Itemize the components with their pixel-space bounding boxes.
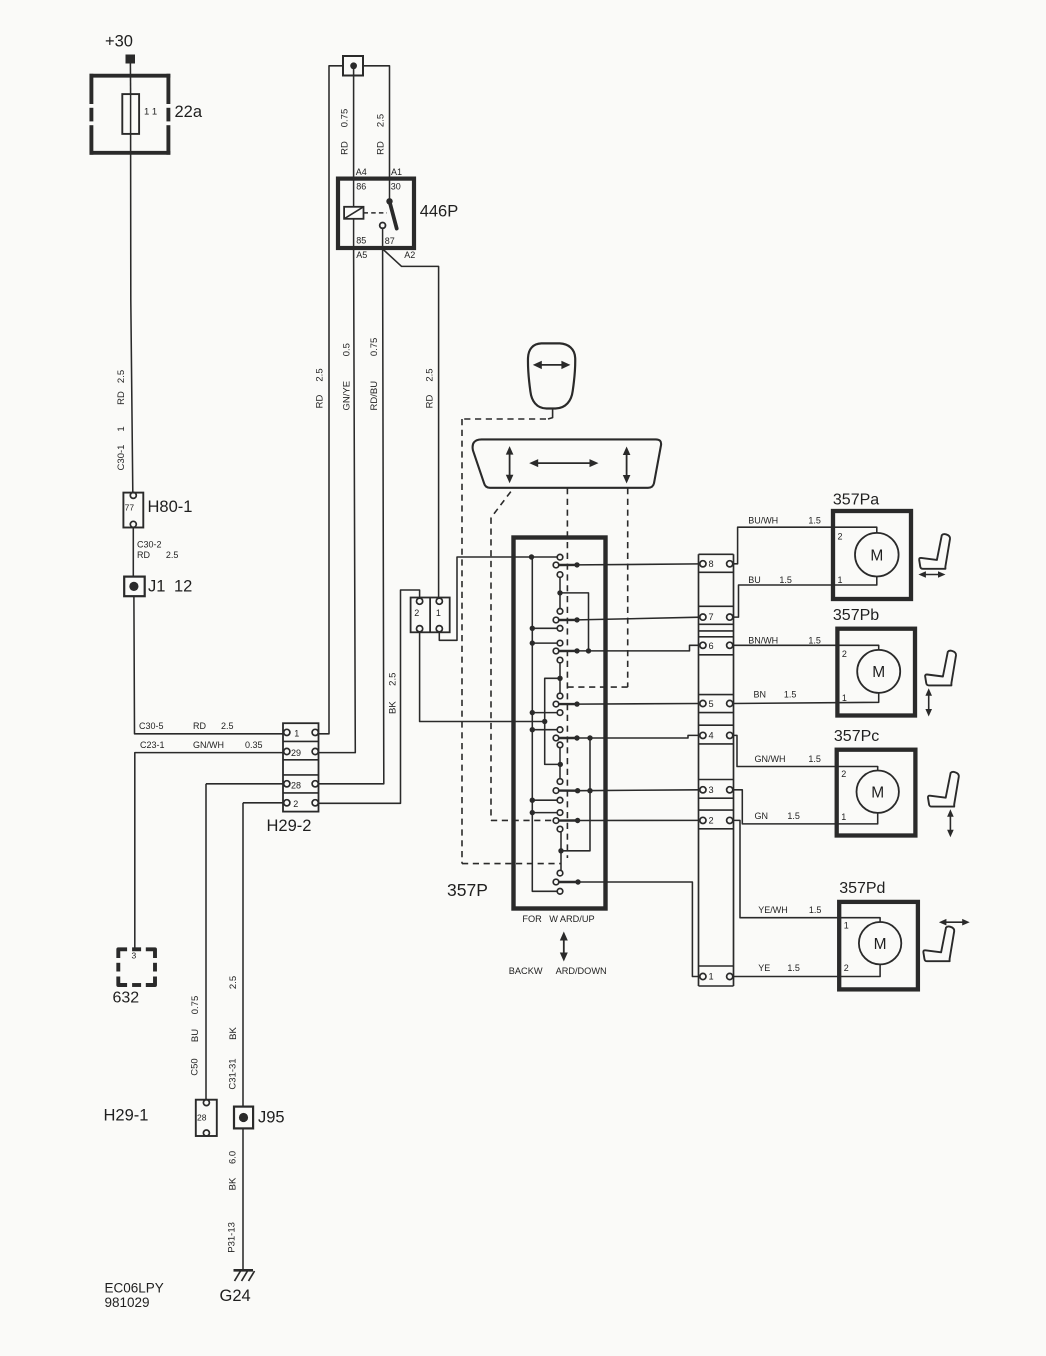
svg-text:BN: BN bbox=[754, 690, 767, 700]
wire 357P internal common bus bbox=[529, 554, 557, 891]
dashed link seat control right to 357P bbox=[567, 488, 627, 687]
wire BU 0.75 C50 H29-2 pin 28 to H29-1 bbox=[190, 784, 284, 1100]
svg-text:RD: RD bbox=[340, 141, 351, 155]
svg-text:C30-2: C30-2 bbox=[137, 540, 162, 550]
svg-text:RD: RD bbox=[116, 391, 127, 405]
svg-text:1: 1 bbox=[436, 608, 441, 618]
wire 357P switch A wiper to pin 8 bbox=[559, 562, 700, 567]
svg-text:357Pa: 357Pa bbox=[833, 492, 879, 509]
svg-text:RD: RD bbox=[424, 395, 435, 409]
svg-text:1.5: 1.5 bbox=[808, 754, 821, 764]
wire GN/YE 0.5 relay pin 85/A5 to H29-2 pin 29 bbox=[318, 248, 355, 753]
svg-text:6.0: 6.0 bbox=[228, 1151, 239, 1164]
wire 357P switch D wiper to pin 5 bbox=[559, 701, 700, 706]
svg-text:86: 86 bbox=[356, 182, 366, 192]
wire RD 2.5 relay pin 87/A2 to inline connector pin 1 bbox=[383, 250, 438, 598]
svg-text:ARD/DOWN: ARD/DOWN bbox=[556, 966, 607, 976]
dashed link seat control middle to 357P bbox=[566, 488, 568, 858]
svg-text:446P: 446P bbox=[420, 203, 459, 221]
svg-text:G24: G24 bbox=[220, 1287, 251, 1305]
wire RD 0.75 junction to relay pin 86/A4 bbox=[340, 69, 367, 179]
svg-text:H29-1: H29-1 bbox=[104, 1107, 149, 1125]
seat icon for 357Pb with vertical arrow bbox=[925, 651, 956, 717]
wire RD 2.5 C30-5 J1 to H29-2 pin 1 bbox=[134, 596, 284, 734]
switch 357P contact group D bbox=[553, 693, 563, 715]
svg-text:YE: YE bbox=[758, 963, 770, 973]
switch 357P contact group G bbox=[553, 810, 563, 832]
wire YE 1.5 pin 1 to motor 357Pd bbox=[733, 963, 880, 976]
svg-text:357P: 357P bbox=[447, 880, 488, 900]
seat icon for 357Pd with horizontal arrow bbox=[923, 919, 969, 961]
svg-text:1.5: 1.5 bbox=[808, 636, 821, 646]
svg-text:22a: 22a bbox=[175, 103, 203, 121]
wire 357P switch H wiper to pin 1 bbox=[559, 879, 700, 976]
svg-text:BACKW: BACKW bbox=[509, 966, 543, 976]
motor 357Pa seat forward/backward bbox=[833, 492, 911, 600]
svg-text:RD: RD bbox=[137, 550, 150, 560]
svg-text:1: 1 bbox=[838, 575, 843, 585]
svg-text:1.5: 1.5 bbox=[808, 516, 821, 526]
svg-text:2.5: 2.5 bbox=[315, 368, 326, 381]
svg-text:0.75: 0.75 bbox=[369, 338, 380, 357]
svg-text:0.75: 0.75 bbox=[340, 109, 351, 128]
footer document id bbox=[105, 1281, 164, 1311]
ground G24 bbox=[220, 1270, 255, 1305]
svg-text:RD/BU: RD/BU bbox=[369, 381, 380, 411]
svg-text:BN/WH: BN/WH bbox=[748, 636, 778, 646]
svg-text:1.5: 1.5 bbox=[784, 690, 797, 700]
connector H80-1 pin 77 bbox=[123, 492, 192, 527]
connector 632 pin 3 bbox=[113, 949, 156, 1006]
connector H29-2 bbox=[267, 723, 319, 835]
seat icon for 357Pa with horizontal arrow bbox=[918, 534, 950, 578]
seat icon for 357Pc with vertical arrow bbox=[928, 772, 959, 837]
svg-text:28: 28 bbox=[291, 781, 301, 791]
svg-text:0.75: 0.75 bbox=[190, 996, 201, 1015]
svg-text:28: 28 bbox=[197, 1113, 207, 1123]
wire 357P switch E lower link bbox=[559, 748, 561, 779]
svg-text:357Pd: 357Pd bbox=[839, 880, 885, 897]
svg-text:C30-1: C30-1 bbox=[116, 445, 127, 471]
switch 357P contact group C bbox=[553, 640, 563, 663]
switch 357P contact group A bbox=[553, 554, 563, 577]
wire RD/BU 0.75 relay pin 87/A5 to H29-2 pin 28 bbox=[318, 248, 384, 784]
junction J1 pin 12 bbox=[124, 577, 192, 597]
wire GN/WH 0.35 C23-1 632 to H29-2 pin 29 bbox=[135, 740, 284, 951]
junction connector above relay 446P bbox=[343, 56, 363, 76]
svg-text:0.35: 0.35 bbox=[245, 740, 263, 750]
node +30 battery feed terminal bbox=[105, 33, 135, 64]
svg-text:BU: BU bbox=[190, 1029, 201, 1042]
svg-text:YE/WH: YE/WH bbox=[758, 905, 788, 915]
wire 357P switch E wiper to pin 4 bbox=[559, 735, 700, 740]
svg-text:3: 3 bbox=[709, 785, 714, 795]
svg-text:1.5: 1.5 bbox=[809, 905, 822, 915]
wire RD 2.5 C30-1 fuse to H80-1 bbox=[116, 134, 133, 493]
wire 357P switch A lower link bbox=[557, 577, 588, 651]
svg-text:2.5: 2.5 bbox=[424, 368, 435, 381]
switch 357P contact group F bbox=[553, 779, 563, 803]
wire RD 2.5 C30-2 H80-1 to J1 bbox=[133, 527, 178, 576]
svg-text:GN: GN bbox=[755, 811, 769, 821]
motor 357Pb seat front height bbox=[833, 607, 915, 716]
svg-text:357Pb: 357Pb bbox=[833, 607, 879, 624]
svg-text:M: M bbox=[870, 548, 883, 565]
svg-text:A2: A2 bbox=[404, 250, 415, 260]
svg-text:W ARD/UP: W ARD/UP bbox=[549, 914, 594, 924]
wire YE/WH 1.5 pin 2 to motor 357Pd bbox=[733, 820, 880, 922]
svg-text:1: 1 bbox=[116, 426, 127, 431]
svg-text:12: 12 bbox=[174, 578, 192, 596]
svg-text:BK: BK bbox=[387, 701, 398, 714]
svg-text:8: 8 bbox=[709, 559, 714, 569]
wire 357P switch C lower link bbox=[542, 663, 563, 767]
switch 357P contact group B bbox=[553, 609, 563, 632]
motor 357Pd seat slide bbox=[839, 880, 918, 989]
svg-text:981029: 981029 bbox=[105, 1295, 150, 1310]
switch 357P contact group H bbox=[553, 870, 563, 894]
svg-text:2.5: 2.5 bbox=[116, 370, 127, 383]
svg-text:6: 6 bbox=[709, 641, 714, 651]
svg-text:632: 632 bbox=[113, 990, 140, 1007]
svg-text:H80-1: H80-1 bbox=[148, 498, 193, 516]
svg-text:1 1: 1 1 bbox=[144, 107, 157, 118]
svg-text:2.5: 2.5 bbox=[221, 721, 234, 731]
wire 357P switch C wiper to pin 6 bbox=[559, 645, 700, 653]
control seat adjuster 4-way switch bbox=[473, 439, 662, 487]
svg-text:C31-31: C31-31 bbox=[228, 1058, 239, 1089]
svg-text:2: 2 bbox=[842, 649, 847, 659]
svg-text:C23-1: C23-1 bbox=[140, 740, 165, 750]
wire 357P switch G lower link bbox=[558, 832, 563, 870]
svg-text:2: 2 bbox=[293, 799, 298, 809]
svg-text:C50: C50 bbox=[190, 1058, 201, 1075]
svg-text:1: 1 bbox=[709, 972, 714, 982]
wire BK 2.5 C31-31 H29-2 pin 2 to J95 bbox=[228, 803, 284, 1107]
wire BU 1.5 pin 7 to motor 357Pa bbox=[733, 575, 877, 617]
svg-text:5: 5 bbox=[709, 699, 714, 709]
fuse 22a bbox=[90, 74, 203, 155]
control knob headrest switch bbox=[528, 343, 575, 408]
svg-text:RD: RD bbox=[193, 721, 206, 731]
svg-text:A4: A4 bbox=[356, 167, 367, 177]
svg-text:EC06LPY: EC06LPY bbox=[105, 1281, 164, 1296]
svg-text:29: 29 bbox=[291, 748, 301, 758]
svg-text:2: 2 bbox=[844, 963, 849, 973]
svg-text:0.5: 0.5 bbox=[342, 343, 353, 356]
svg-text:2: 2 bbox=[838, 531, 843, 541]
wire +30 to fuse 22a bbox=[129, 64, 131, 95]
junction J95 bbox=[234, 1107, 285, 1129]
svg-text:1: 1 bbox=[294, 729, 299, 739]
svg-text:1: 1 bbox=[842, 693, 847, 703]
svg-text:4: 4 bbox=[709, 731, 714, 741]
svg-text:+30: +30 bbox=[105, 33, 133, 51]
svg-text:GN/WH: GN/WH bbox=[755, 754, 786, 764]
wire BU/WH 1.5 pin 8 to motor 357Pa bbox=[733, 516, 877, 564]
connector H29-1 pin 28 bbox=[104, 1100, 217, 1136]
dashed link seat control left to 357P bbox=[491, 492, 555, 821]
wire RD 2.5 junction bypass to H29-2 pin 1 bbox=[315, 66, 344, 734]
svg-text:77: 77 bbox=[125, 503, 135, 513]
svg-text:M: M bbox=[872, 664, 885, 681]
switch 357P contact group E bbox=[553, 727, 563, 748]
svg-text:2.5: 2.5 bbox=[376, 114, 387, 127]
wire 357P switch B wiper to pin 7 bbox=[559, 617, 700, 622]
wire inline connector pin 1 to 357P switch common bbox=[439, 557, 557, 640]
svg-text:2: 2 bbox=[709, 816, 714, 826]
svg-text:85: 85 bbox=[356, 236, 366, 246]
svg-text:2.5: 2.5 bbox=[387, 673, 398, 686]
svg-text:2: 2 bbox=[414, 608, 419, 618]
svg-text:BK: BK bbox=[228, 1027, 239, 1040]
svg-text:RD: RD bbox=[315, 395, 326, 409]
svg-text:J1: J1 bbox=[148, 578, 165, 596]
svg-text:M: M bbox=[874, 936, 887, 953]
svg-text:2.5: 2.5 bbox=[228, 976, 239, 989]
svg-text:2.5: 2.5 bbox=[166, 550, 179, 560]
svg-text:BU: BU bbox=[748, 575, 761, 585]
wire 357P switch G wiper to pin 2 bbox=[559, 818, 700, 823]
wire GN/WH 1.5 pin 4 to motor 357Pc bbox=[733, 735, 878, 770]
svg-text:P31-13: P31-13 bbox=[227, 1222, 238, 1253]
svg-text:1.5: 1.5 bbox=[787, 811, 800, 821]
svg-text:H29-2: H29-2 bbox=[267, 817, 312, 835]
svg-text:BK: BK bbox=[228, 1177, 239, 1190]
svg-text:M: M bbox=[871, 785, 884, 802]
wire GN 1.5 pin 3 to motor 357Pc bbox=[733, 790, 878, 824]
svg-text:J95: J95 bbox=[258, 1109, 285, 1127]
svg-text:GN/YE: GN/YE bbox=[342, 381, 353, 411]
wire inline connector pin 2 to 357P switch bbox=[420, 632, 545, 722]
svg-text:357Pc: 357Pc bbox=[834, 728, 879, 745]
svg-text:87: 87 bbox=[385, 236, 395, 246]
svg-text:1: 1 bbox=[844, 921, 849, 931]
wire RD 2.5 junction to relay pin 30/A1 bbox=[363, 66, 402, 179]
wire 357P switch F wiper to pin 3 bbox=[559, 788, 700, 793]
svg-text:3: 3 bbox=[132, 951, 137, 961]
switch pack 357P enclosure bbox=[447, 538, 606, 909]
svg-text:A1: A1 bbox=[391, 167, 402, 177]
svg-text:1.5: 1.5 bbox=[779, 575, 792, 585]
svg-text:GN/WH: GN/WH bbox=[193, 740, 224, 750]
svg-text:BU/WH: BU/WH bbox=[748, 516, 778, 526]
motor 357Pc seat rear height bbox=[834, 728, 916, 836]
svg-text:2: 2 bbox=[841, 769, 846, 779]
relay 446P bbox=[338, 179, 458, 260]
svg-text:7: 7 bbox=[709, 612, 714, 622]
wire BK 6.0 P31-13 J95 to ground G24 bbox=[227, 1128, 243, 1270]
svg-text:1.5: 1.5 bbox=[787, 963, 800, 973]
wire 357P E-F to G-H link bbox=[561, 738, 590, 851]
wire BK 2.5 inline connector pin 2 to H29-2 pin 2 bbox=[318, 590, 419, 803]
svg-text:C30-5: C30-5 bbox=[139, 721, 164, 731]
inline connector 2|1 bbox=[411, 598, 450, 633]
svg-text:FOR: FOR bbox=[522, 914, 542, 924]
svg-text:A5: A5 bbox=[356, 250, 367, 260]
label 357P direction legend bbox=[509, 914, 607, 976]
svg-text:1: 1 bbox=[841, 812, 846, 822]
wire BN/WH 1.5 pin 6 to motor 357Pb bbox=[733, 636, 879, 650]
dashed link headrest control to 357P bbox=[462, 409, 561, 864]
wire BN 1.5 pin 5 to motor 357Pb bbox=[733, 690, 879, 704]
connector strip 357P harness bbox=[699, 554, 734, 986]
svg-text:30: 30 bbox=[391, 181, 401, 191]
svg-text:RD: RD bbox=[376, 141, 387, 155]
